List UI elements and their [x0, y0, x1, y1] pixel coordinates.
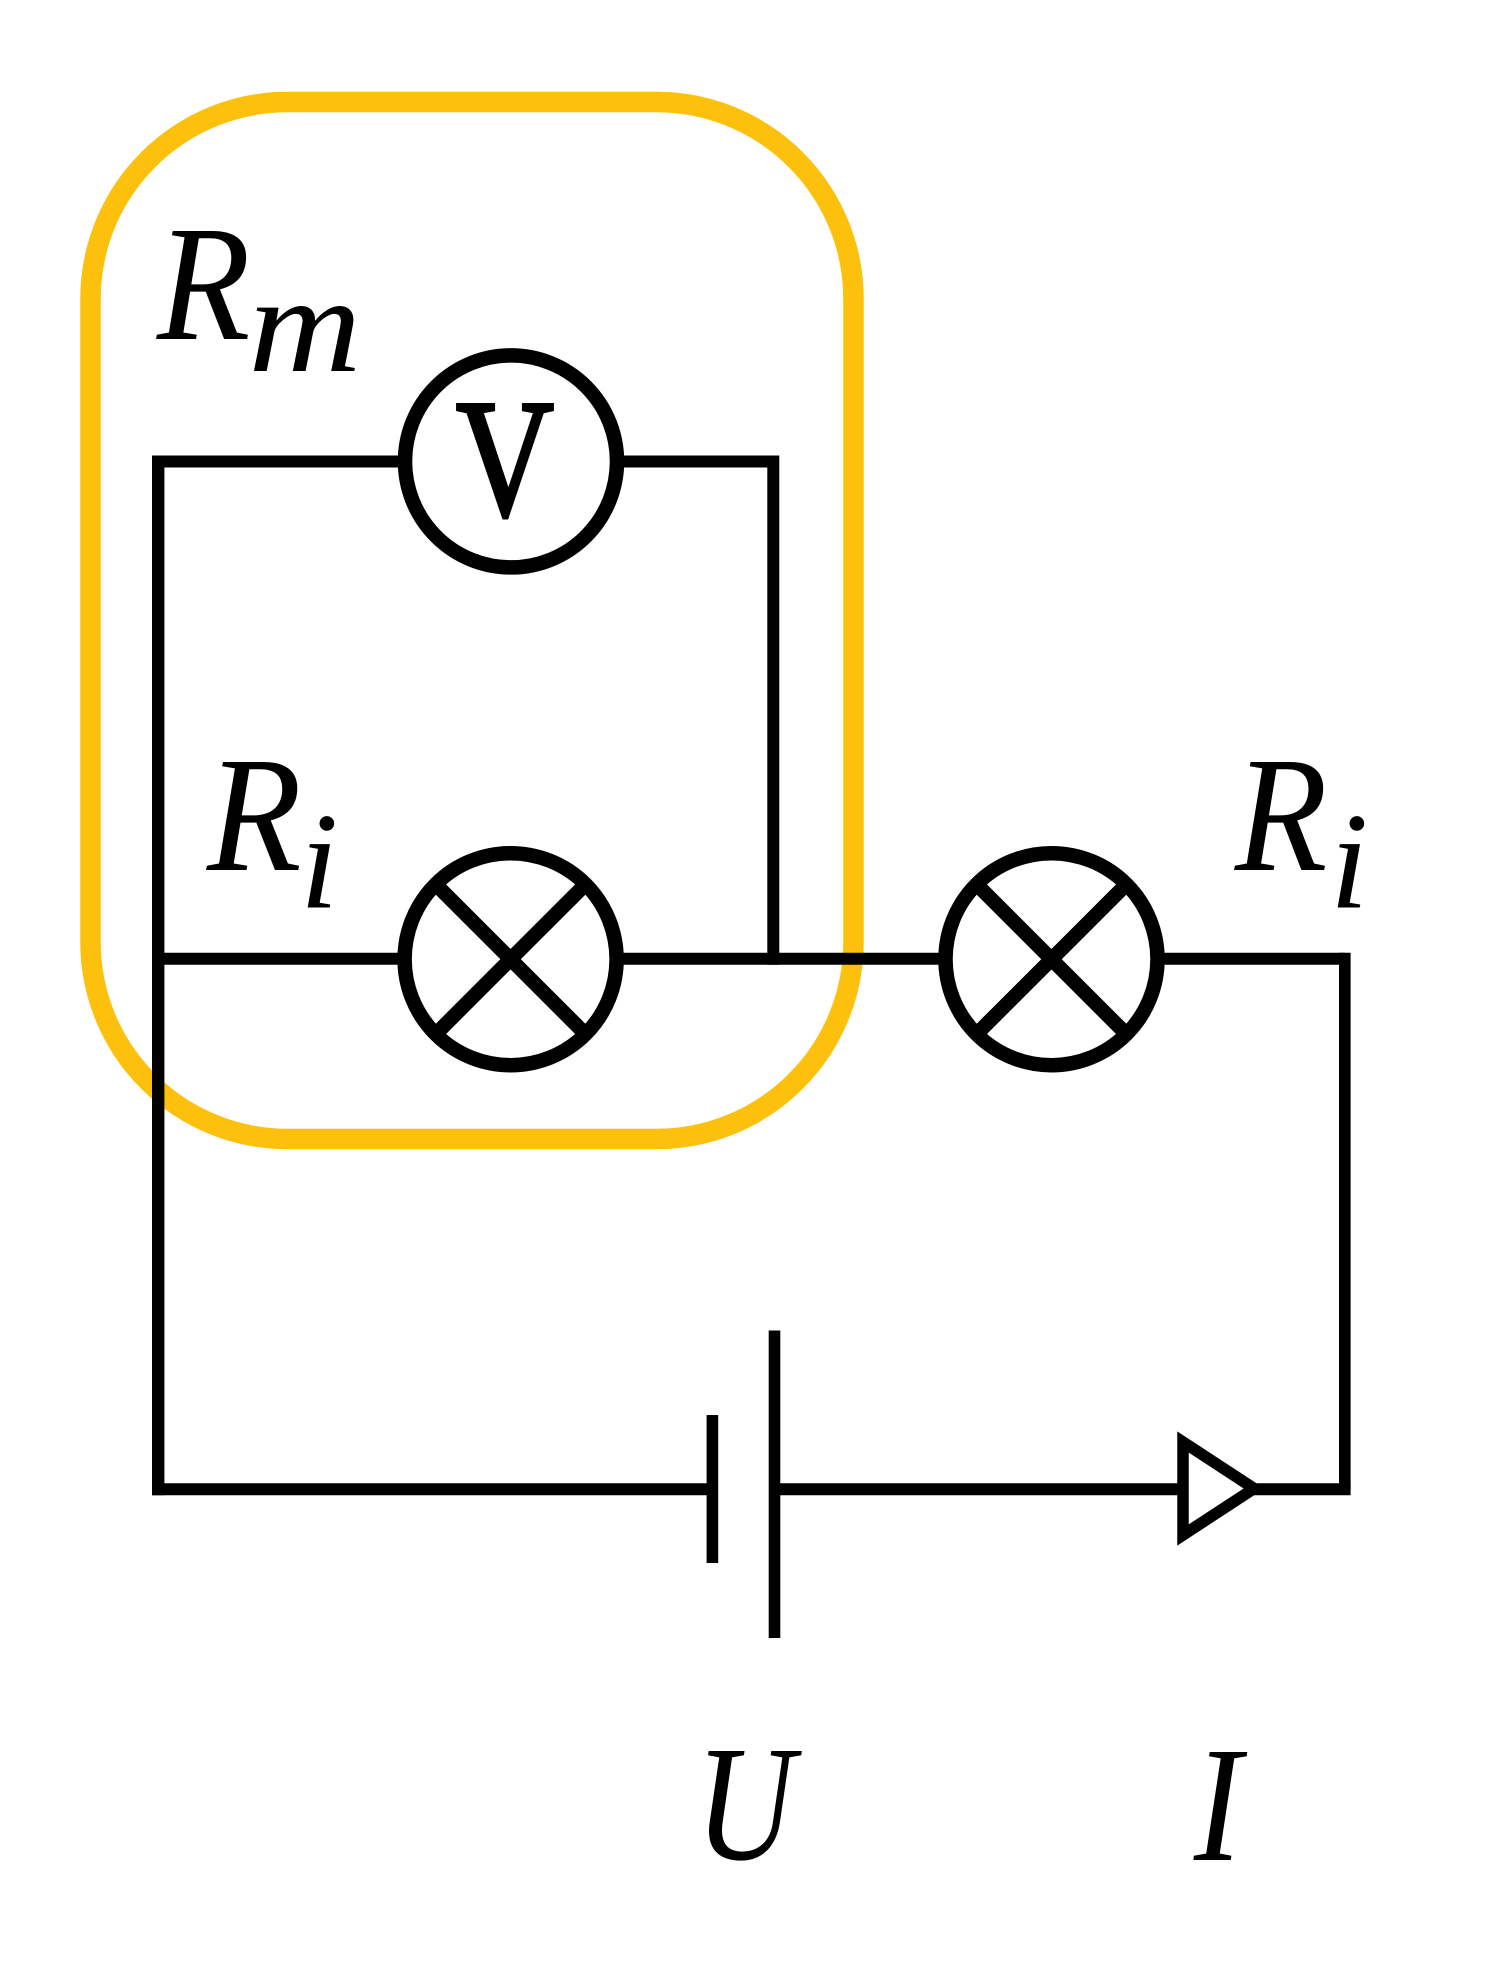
- svg-text:R: R: [206, 723, 302, 906]
- lamp Ri (inside box) X stroke 1: [436, 884, 586, 1034]
- svg-text:i: i: [300, 785, 338, 938]
- wire: left vertical: [152, 456, 164, 1496]
- svg-text:U: U: [696, 1712, 803, 1895]
- battery short plate (negative): [707, 1415, 719, 1563]
- svg-text:I: I: [1193, 1714, 1248, 1897]
- wire: bottom wire right of battery: [775, 1483, 1351, 1495]
- wire: top wire of voltmeter loop: [152, 456, 779, 468]
- wire: right vertical: [1339, 953, 1351, 1490]
- lamp Ri (inside box) circle: [405, 853, 617, 1065]
- svg-text:m: m: [248, 248, 361, 401]
- svg-text:V: V: [456, 365, 554, 551]
- svg-text:R: R: [156, 193, 251, 375]
- wire: bottom wire left of battery: [152, 1483, 712, 1495]
- battery long plate (positive): [769, 1331, 781, 1639]
- wire: inner right vertical: [767, 456, 779, 965]
- highlight box Rm (orange rounded rect): [91, 102, 854, 1139]
- svg-text:i: i: [1330, 785, 1368, 938]
- lamp Ri (inside box) X stroke 2: [436, 884, 586, 1034]
- voltmeter V circle: [405, 355, 617, 567]
- current direction arrow I: [1183, 1442, 1254, 1535]
- lamp Ri (right) X stroke 1: [977, 884, 1127, 1034]
- wire: middle lamp wire: [152, 953, 1345, 965]
- svg-text:R: R: [1234, 724, 1327, 906]
- lamp Ri (right) X stroke 2: [977, 884, 1127, 1034]
- lamp Ri (right) circle: [946, 853, 1158, 1065]
